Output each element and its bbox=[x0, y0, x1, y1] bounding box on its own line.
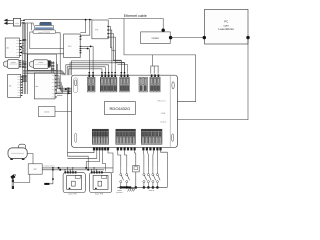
terminal block CN3 bbox=[120, 74, 130, 92]
node router right junction bbox=[169, 36, 172, 39]
mounting slot top-right bbox=[170, 76, 174, 147]
24V power supply box bbox=[64, 34, 82, 58]
enclosure box around motor M2 bbox=[28, 54, 57, 70]
driver box drv bbox=[5, 38, 21, 57]
svg-text:motor: motor bbox=[11, 61, 16, 64]
wire sensor to water protect box bbox=[14, 174, 30, 182]
svg-text:Ethernet: Ethernet bbox=[157, 99, 166, 102]
terminal block CN4 bbox=[139, 77, 147, 92]
wire U-disk to controller bbox=[55, 111, 72, 113]
water pump tank bbox=[8, 144, 27, 160]
svg-text:U-disk: U-disk bbox=[160, 122, 167, 124]
node bus drop dots bbox=[64, 169, 65, 170]
laser power supply L2 bbox=[90, 171, 112, 195]
wire X driver pins to controller bbox=[57, 75, 59, 77]
wire panel right lead bbox=[56, 33, 69, 90]
stepper motor M2 bbox=[29, 60, 50, 69]
svg-text:drv: drv bbox=[36, 86, 39, 88]
driver box drv bbox=[8, 74, 23, 97]
svg-text:motor: motor bbox=[38, 61, 43, 64]
router box bbox=[141, 32, 171, 44]
terminal block CN7 bbox=[116, 129, 136, 150]
svg-text:drv: drv bbox=[9, 86, 12, 88]
wire bundle into controller left edge bbox=[59, 76, 72, 89]
U-disk box bbox=[39, 106, 56, 116]
switch S6 bbox=[156, 167, 160, 189]
svg-text:laser P/S: laser P/S bbox=[69, 193, 78, 195]
wire filter output bbox=[21, 19, 25, 21]
controller RDC6432G main board bbox=[72, 75, 178, 147]
terminal block CN8 bbox=[141, 129, 162, 150]
node router top junction bbox=[162, 29, 165, 32]
svg-text:USB: USB bbox=[161, 113, 166, 115]
wire panel left lead bbox=[30, 32, 64, 49]
svg-text:panel RD320: panel RD320 bbox=[38, 32, 51, 34]
mounting slot bottom-left bbox=[74, 133, 76, 143]
RDC6432G label box bbox=[105, 102, 136, 115]
wire AC drops to 24V PSU bbox=[80, 20, 85, 33]
wire M2 bundle hatch bbox=[51, 61, 55, 64]
svg-text:router: router bbox=[152, 36, 159, 40]
wire bottom tails to left bbox=[68, 150, 95, 152]
wire bundle left vertical bbox=[22, 22, 24, 94]
wire bottom common bus bbox=[117, 186, 167, 188]
stepper motor M1 bbox=[3, 60, 21, 69]
terminal block CN2 bbox=[100, 74, 117, 92]
wire main PSU out drops bbox=[109, 27, 112, 74]
wire right tail down to unit2 bbox=[108, 150, 113, 172]
wire router to PC bbox=[171, 37, 205, 39]
node wire arrows at controller edge bbox=[68, 87, 72, 89]
laser power supply L1 bbox=[63, 171, 85, 195]
wire bus drops to laser PSU L1 bbox=[64, 170, 66, 171]
HMI panel middle bar bbox=[34, 25, 53, 29]
wire motor M1 leads bbox=[22, 60, 25, 62]
wire Ethernet cable: router to controller bbox=[108, 19, 163, 31]
AC mains input arrows bbox=[5, 19, 11, 24]
main power supply box top bbox=[92, 20, 109, 39]
driver box drv bbox=[34, 73, 57, 99]
ground bar bbox=[44, 183, 49, 185]
wire 24V output drops bbox=[88, 49, 90, 75]
svg-text:LaserWorks: LaserWorks bbox=[219, 27, 235, 31]
svg-text:switch: switch bbox=[149, 189, 154, 192]
node PC left junction bbox=[203, 36, 206, 39]
wire bus B horizontal bbox=[66, 65, 109, 75]
switch S5 bbox=[152, 167, 156, 189]
wire controller left-bottom loop bbox=[68, 93, 89, 170]
mains filter box bbox=[13, 18, 20, 26]
wire extra verticals to controller bbox=[55, 62, 57, 93]
wire 24V rail lower bbox=[24, 23, 64, 54]
wire bus A horizontal bbox=[23, 71, 62, 76]
HMI panel bottom bar bbox=[33, 30, 56, 34]
terminal block CN5 bbox=[150, 74, 160, 92]
wire 24V PSU outputs bbox=[81, 45, 93, 47]
switch S3 bbox=[143, 167, 147, 189]
wire switch feeds from CN7 bbox=[118, 150, 121, 166]
wire panel cable to right terminals bbox=[152, 55, 154, 66]
mounting slot bottom-right bbox=[172, 134, 174, 141]
HMI panel top bar bbox=[40, 22, 52, 25]
wire relay leads bbox=[135, 150, 136, 165]
svg-text:laser P/S: laser P/S bbox=[95, 193, 104, 195]
svg-text:Ethernet cable: Ethernet cable bbox=[124, 14, 147, 18]
PC box bbox=[205, 9, 249, 44]
wire mains to filter bbox=[11, 19, 14, 21]
svg-text:protect: protect bbox=[117, 191, 123, 194]
wire bus B drops to terminals bbox=[101, 69, 103, 74]
wire bundle junction hatch bbox=[22, 74, 27, 77]
node driver D1 top junction bbox=[22, 39, 26, 41]
water protect box bbox=[28, 164, 42, 174]
node filter output junctions bbox=[23, 19, 25, 21]
water flow sensor bbox=[10, 174, 15, 189]
mounting slot top-left bbox=[73, 78, 77, 93]
terminal block CN6 bbox=[92, 129, 109, 150]
terminal block CN1 bbox=[87, 74, 95, 92]
wire Z driver pins to bundle bbox=[22, 40, 25, 42]
svg-text:U-disk: U-disk bbox=[44, 112, 50, 114]
switch S4 bbox=[147, 167, 151, 189]
wire far right drop bbox=[161, 150, 168, 187]
wire laser PSU bus bbox=[42, 167, 113, 169]
relay box bbox=[133, 166, 140, 172]
node AC bus drop junctions bbox=[85, 19, 87, 21]
wire pump to water-protect box bbox=[27, 154, 33, 164]
wire USB cable: PC to controller bbox=[177, 38, 248, 120]
wire bundle hatch at motor M1 pins bbox=[22, 61, 27, 64]
switch S2 bbox=[126, 167, 130, 189]
wire motor M2 leads down to X driver bbox=[48, 60, 51, 66]
svg-text:RDC6432G: RDC6432G bbox=[110, 106, 131, 111]
wire drops to panel bbox=[31, 23, 33, 30]
wire bus drops to laser PSU L2 bbox=[90, 170, 92, 171]
wire ground bar to bus bbox=[49, 168, 53, 184]
node PC right junction bbox=[246, 36, 249, 39]
wire tails to psu bus bbox=[86, 150, 99, 168]
switch S1 bbox=[120, 167, 124, 189]
wire top AC bus bbox=[24, 19, 92, 21]
chassis ground symbol bbox=[128, 188, 135, 191]
svg-text:drv: drv bbox=[6, 48, 9, 50]
